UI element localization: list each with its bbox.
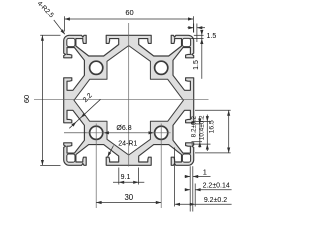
corner hole top-right xyxy=(182,38,190,46)
dimension 60 left xyxy=(40,34,60,36)
dimension diameter 6.8 xyxy=(64,132,87,134)
svg-text:9.1: 9.1 xyxy=(121,174,131,181)
svg-text:24-R1: 24-R1 xyxy=(118,140,137,147)
svg-text:2.2±0.14: 2.2±0.14 xyxy=(203,182,230,189)
svg-text:30: 30 xyxy=(124,193,133,202)
dimension 9.1 stem flange xyxy=(118,168,120,185)
leader 4-R2.5 corner radius xyxy=(54,20,65,34)
vertical centerline xyxy=(128,23,130,167)
svg-text:8.2±0.2: 8.2±0.2 xyxy=(190,116,197,138)
core hole bottom-left xyxy=(90,126,103,139)
svg-text:4-R2.5: 4-R2.5 xyxy=(36,0,55,19)
horizontal centerline xyxy=(34,98,209,100)
center cavity xyxy=(74,46,183,155)
dimension 2.2 web xyxy=(69,99,100,128)
dimensions 1 / 2.2 / 9.2 bottom right xyxy=(174,148,176,207)
svg-text:60: 60 xyxy=(22,95,31,103)
core hole top-right xyxy=(155,61,168,74)
corner hole bottom-right xyxy=(182,154,190,162)
dimensions 8.2 / 10.4 / 16.5 right side xyxy=(195,109,231,111)
leader 24-R1 fillets xyxy=(108,146,114,158)
svg-text:16.5: 16.5 xyxy=(208,120,215,133)
svg-text:Ø6.8: Ø6.8 xyxy=(116,125,131,132)
core hole top-left xyxy=(90,61,103,74)
svg-text:60: 60 xyxy=(125,8,133,17)
profile body (60x60 T-slot extrusion cross-section) xyxy=(64,35,194,165)
crosshair bottom-right hole xyxy=(160,124,162,143)
corner hole bottom-left xyxy=(67,154,75,162)
core hole bottom-right xyxy=(155,126,168,139)
svg-text:1.5: 1.5 xyxy=(207,33,217,40)
crosshair bottom-left hole xyxy=(95,124,97,143)
dimension 1.5 top wall xyxy=(193,24,195,33)
svg-text:1.5: 1.5 xyxy=(193,60,200,70)
dimension 1.5 side wall xyxy=(194,34,204,36)
svg-text:9.2±0.2: 9.2±0.2 xyxy=(204,197,227,204)
svg-text:1: 1 xyxy=(203,167,207,176)
dimension 30 hole spacing xyxy=(95,142,97,208)
corner hole top-left xyxy=(67,38,75,46)
dimension 60 top xyxy=(64,16,66,31)
